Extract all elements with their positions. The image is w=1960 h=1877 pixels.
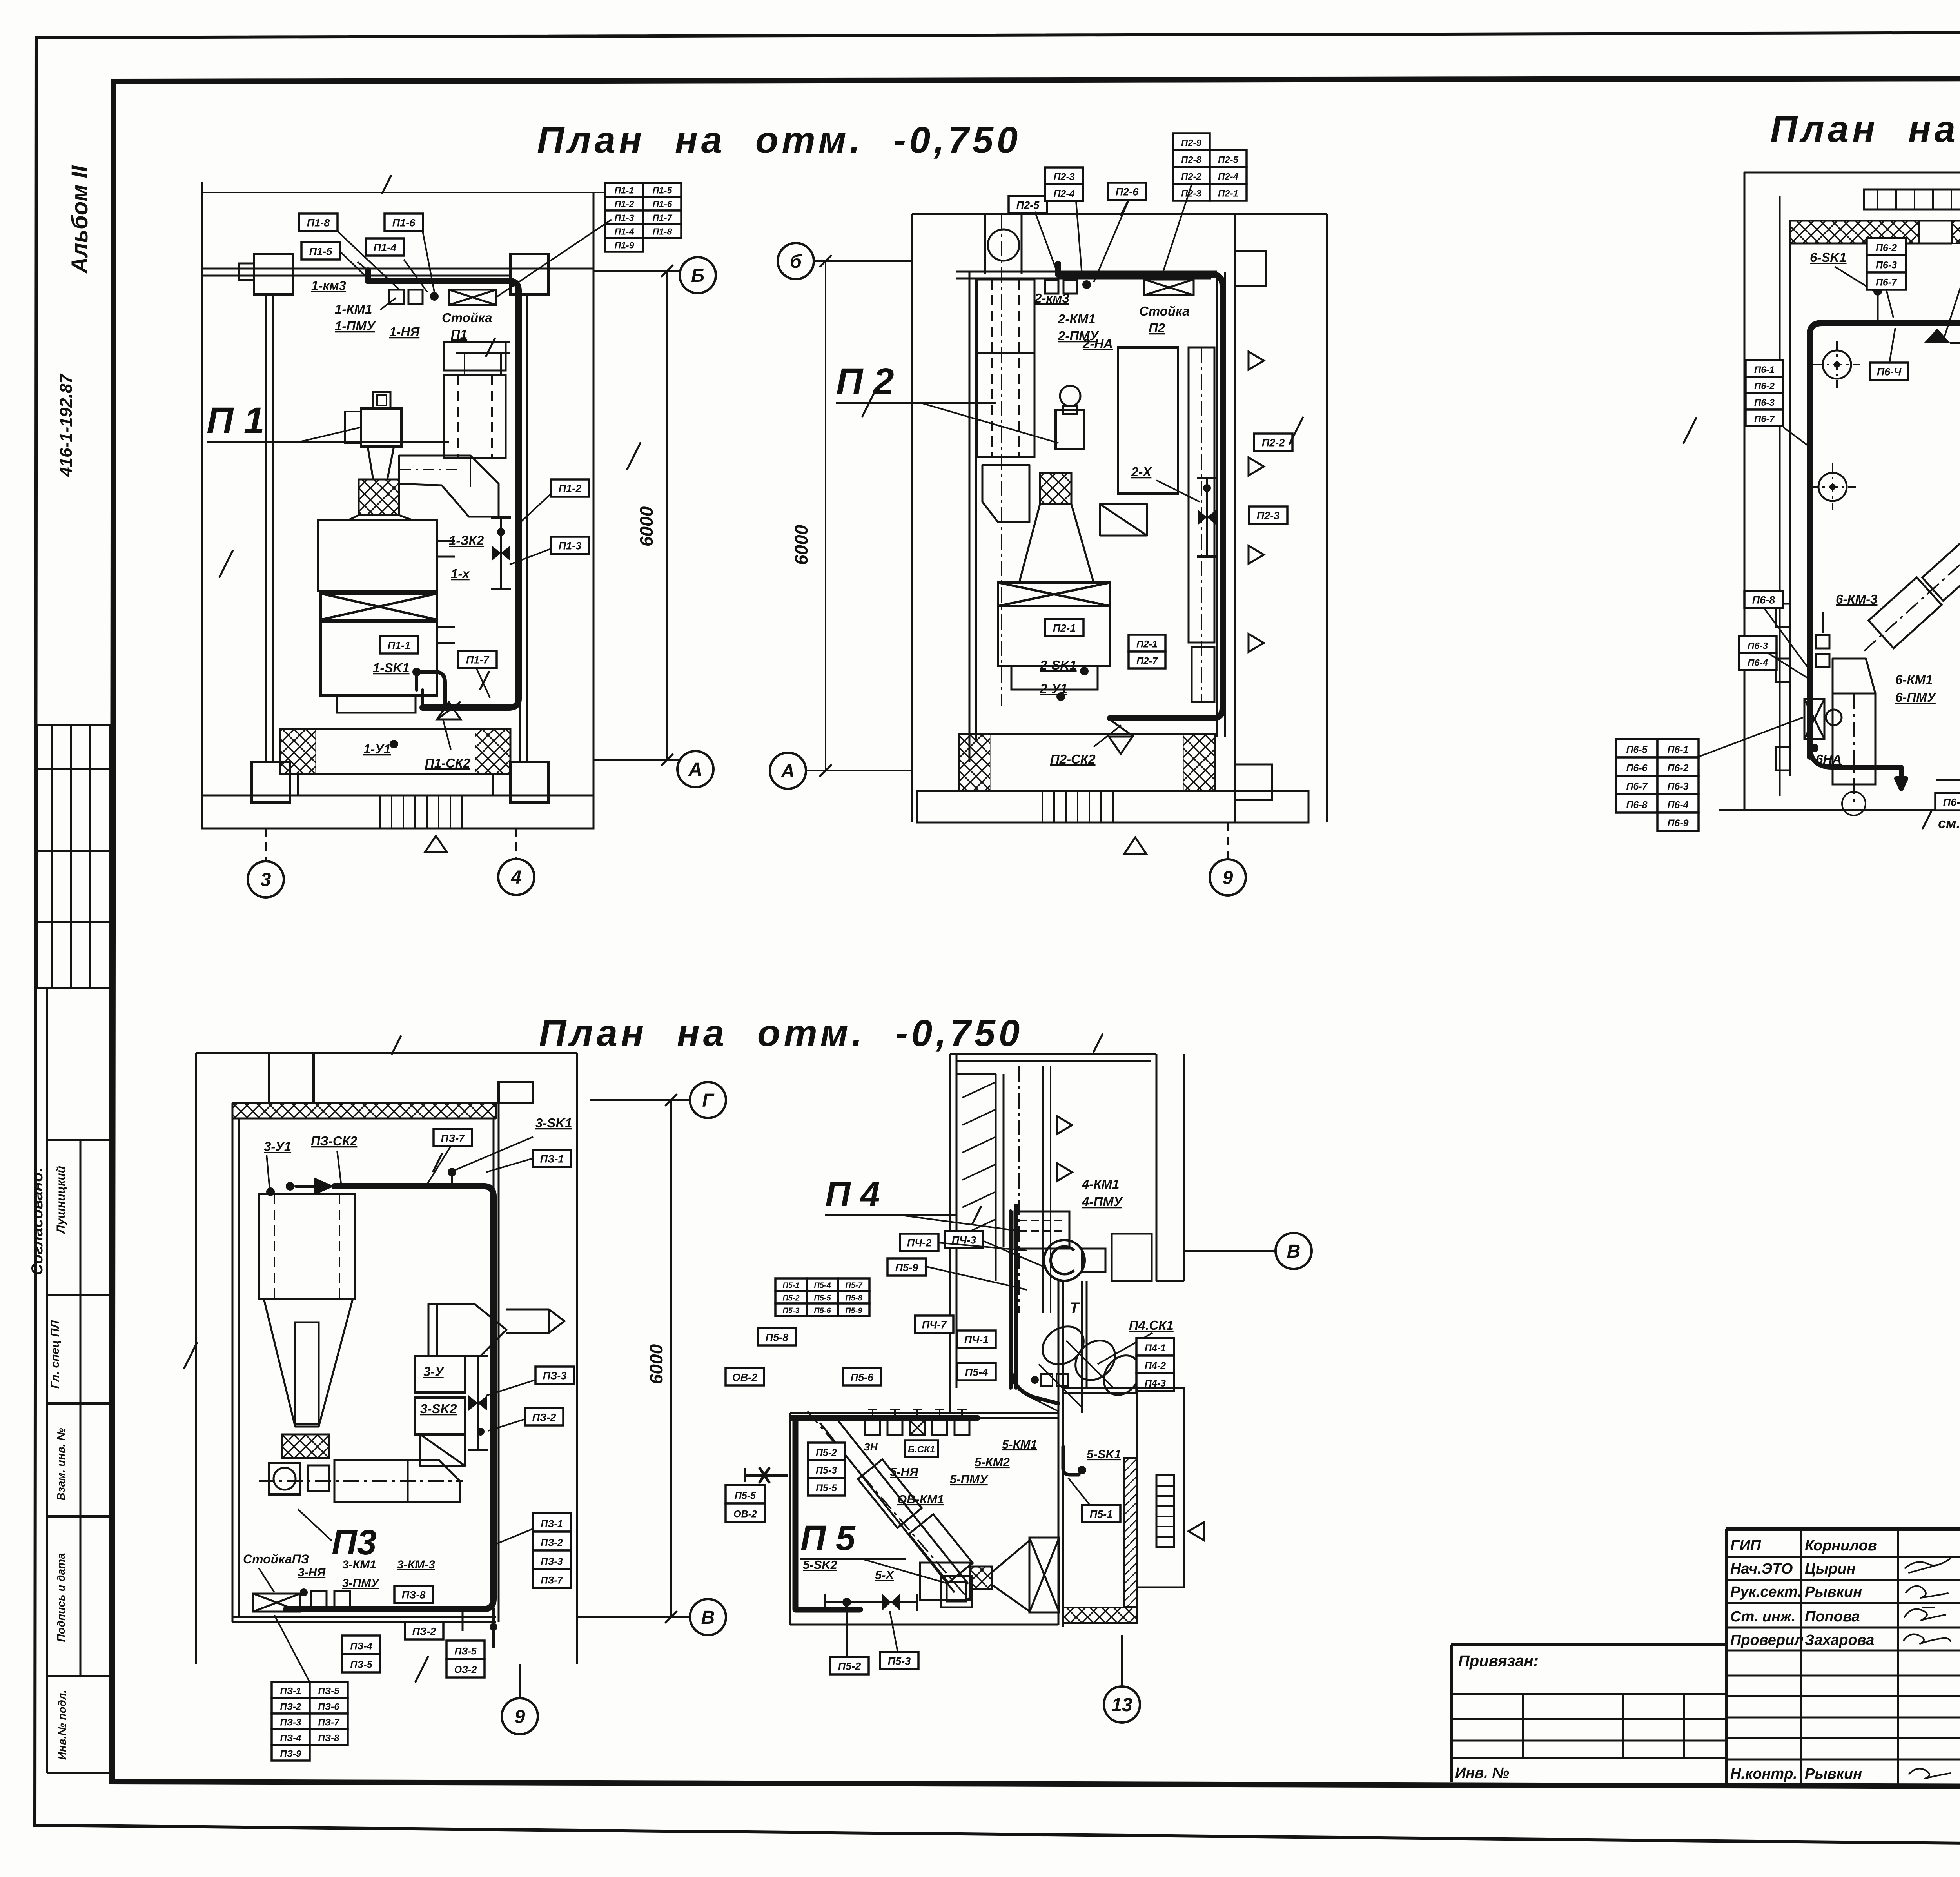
П1 leader П1-7 [476, 668, 490, 698]
П3 duct piece [308, 1465, 329, 1491]
П5 room walls [790, 1281, 1087, 1627]
П2 top dimension line [912, 197, 1327, 215]
svg-text:Рывкин: Рывкин [1805, 1584, 1862, 1600]
personnel table grid [1726, 1529, 1960, 1784]
personnel row Цырин [1730, 1561, 1960, 1577]
svg-text:П2-3: П2-3 [1181, 189, 1202, 199]
П4 index table [1136, 1338, 1174, 1391]
axis б leader [814, 260, 912, 262]
П6 damper symbol [1924, 279, 1960, 343]
axis 3 leader [265, 828, 267, 861]
П3 box 3-У [415, 1356, 465, 1392]
svg-text:П6-9: П6-9 [1667, 818, 1688, 829]
svg-text:6-SK1: 6-SK1 [1810, 250, 1847, 265]
label box ПЗ-3 [535, 1367, 574, 1384]
svg-text:4: 4 [511, 867, 522, 888]
axis circle 13 [1104, 1686, 1140, 1723]
П1 column B2 [510, 762, 548, 802]
svg-text:Взам. инв. №: Взам. инв. № [55, 1428, 67, 1501]
svg-text:3: 3 [261, 870, 271, 890]
svg-text:Привязан:: Привязан: [1458, 1652, 1539, 1670]
svg-text:П2-9: П2-9 [1181, 138, 1202, 149]
svg-text:1-НЯ: 1-НЯ [389, 325, 420, 339]
П5 fan assembly [920, 1538, 1059, 1612]
label box П5-1 [1082, 1505, 1120, 1522]
П3 right column box [499, 1082, 533, 1103]
title block outline [1726, 1529, 1960, 1790]
П6 sensor 6-SK1 [1835, 267, 1882, 323]
П6 top ticked strip [1864, 189, 1960, 209]
svg-text:П5-5: П5-5 [816, 1483, 837, 1494]
privyazan box [1451, 1645, 1726, 1782]
svg-text:3-У1: 3-У1 [264, 1139, 291, 1154]
П3 fan square [269, 1463, 300, 1494]
П6 leaders left [1764, 608, 1808, 678]
svg-text:ПЗ-7: ПЗ-7 [318, 1717, 340, 1728]
svg-text:Т: Т [1069, 1300, 1080, 1317]
svg-text:План на отм. -0,750: План на отм. -0,750 [537, 119, 1021, 161]
svg-text:2-SK1: 2-SK1 [1040, 658, 1077, 672]
margin upper grid [37, 725, 111, 988]
svg-text:Цырин: Цырин [1805, 1561, 1856, 1577]
label box П5-4 [957, 1363, 996, 1380]
svg-text:П2-СК2: П2-СК2 [1050, 752, 1096, 766]
svg-text:1-КМ1: 1-КМ1 [335, 302, 372, 316]
П3 leader table right [495, 1529, 533, 1545]
svg-text:П5-1: П5-1 [782, 1281, 799, 1290]
П3 pair bottom [342, 1636, 380, 1672]
П6 leader П6-Ч [1889, 328, 1895, 363]
П5 left valve [745, 1468, 788, 1482]
П3 valve assembly [468, 1356, 488, 1450]
svg-text:П5-5: П5-5 [814, 1294, 831, 1302]
signature Рывкин [1906, 1586, 1948, 1598]
П2 sensor dot 2-НА [1082, 280, 1091, 289]
svg-text:Инв. №: Инв. № [1455, 1765, 1509, 1781]
svg-text:П5-5: П5-5 [735, 1490, 756, 1501]
svg-text:П5-2: П5-2 [782, 1294, 799, 1302]
П2 foundation [959, 734, 1215, 791]
svg-text:П1-4: П1-4 [374, 242, 396, 254]
svg-text:П5-9: П5-9 [845, 1306, 862, 1315]
svg-text:4-ПМУ: 4-ПМУ [1082, 1194, 1123, 1209]
svg-text:3-SK2: 3-SK2 [420, 1401, 457, 1416]
svg-text:П1-8: П1-8 [307, 217, 330, 229]
svg-text:П5-8: П5-8 [766, 1332, 788, 1343]
signature Попова [1904, 1607, 1945, 1620]
svg-text:П4-1: П4-1 [1145, 1343, 1166, 1354]
svg-text:ПЗ-3: ПЗ-3 [280, 1717, 301, 1728]
svg-text:ПЗ-2: ПЗ-2 [412, 1626, 436, 1637]
П3 hopper hatch [282, 1434, 329, 1458]
svg-text:5-SK1: 5-SK1 [1087, 1447, 1121, 1461]
П6 dot 6НА [1810, 744, 1818, 752]
П1 left boundary wall line [201, 182, 203, 828]
svg-text:3-SK1: 3-SK1 [535, 1116, 572, 1130]
П3 elbow right [408, 1460, 460, 1502]
П3 dim vertical 6000 [577, 1095, 690, 1623]
П2 break mark right [1290, 418, 1303, 444]
П3 left wall [232, 1103, 239, 1622]
svg-text:П2-7: П2-7 [1136, 656, 1158, 667]
П1 column line left [266, 294, 273, 762]
П1 column A [239, 254, 293, 294]
svg-text:П1-4: П1-4 [615, 227, 634, 237]
svg-text:П2-1: П2-1 [1053, 623, 1076, 634]
П1 sensor dot 1-НЯ [430, 292, 439, 301]
svg-text:А: А [781, 761, 795, 782]
П3 top column box [269, 1053, 314, 1103]
svg-text:Проверил: Проверил [1730, 1632, 1804, 1648]
label box П1-5 [301, 242, 340, 260]
П2 fan unit [1056, 386, 1084, 449]
signature Цырин [1905, 1559, 1950, 1573]
signature Захарова [1904, 1634, 1951, 1644]
П3 horizontal duct [259, 1460, 463, 1502]
svg-text:6НА: 6НА [1816, 752, 1842, 766]
П2 ahu box [998, 606, 1110, 666]
svg-text:СтойкаПЗ: СтойкаПЗ [243, 1552, 309, 1566]
axis circle В [690, 1599, 726, 1635]
svg-text:б: б [790, 251, 802, 272]
svg-text:ПЗ-7: ПЗ-7 [441, 1133, 466, 1144]
П5 diag end box [941, 1576, 972, 1607]
axis circle Б [680, 257, 716, 293]
П2 tall dashed duct [977, 280, 1034, 457]
axis circle 9 [1210, 859, 1246, 895]
svg-text:ПЗ-1: ПЗ-1 [280, 1686, 301, 1696]
label box П2-3 [1249, 506, 1287, 524]
П2 right boundary line [1326, 214, 1328, 822]
svg-text:5-НЯ: 5-НЯ [890, 1465, 919, 1479]
svg-text:ПЗ-7: ПЗ-7 [541, 1575, 563, 1586]
П3 upper duct out [506, 1309, 564, 1333]
svg-text:П2-1: П2-1 [1218, 189, 1238, 199]
svg-text:П5-2: П5-2 [816, 1447, 837, 1458]
label box ПЗ-2 [525, 1408, 563, 1425]
svg-text:П6-5: П6-5 [1943, 797, 1960, 808]
svg-text:П6-2: П6-2 [1667, 763, 1688, 774]
svg-text:Корнилов: Корнилов [1805, 1538, 1877, 1554]
svg-text:ОЗ-2: ОЗ-2 [454, 1665, 477, 1676]
П6 table top [1867, 238, 1906, 290]
П1 column line right [520, 294, 527, 762]
svg-text:ПЧ-1: ПЧ-1 [964, 1334, 989, 1346]
П5 index table [775, 1278, 869, 1316]
П3 break left [184, 1343, 197, 1368]
svg-text:П5-2: П5-2 [838, 1661, 861, 1672]
П5 sensor 5-SK1 [1063, 1447, 1086, 1475]
П2 room left wall [969, 272, 976, 762]
label box П5-9 [887, 1258, 926, 1276]
П3 left boundary line [195, 1053, 197, 1664]
П2 room top wall [956, 272, 1217, 278]
П4 duct elbow down [1011, 1364, 1058, 1403]
П3 duct tail [463, 1609, 497, 1646]
svg-text:П1-1: П1-1 [615, 185, 634, 196]
П1 leader 1-км1 [380, 298, 396, 310]
svg-text:П1-3: П1-3 [615, 213, 634, 223]
svg-text:П1: П1 [451, 327, 467, 341]
svg-text:ПЗ-2: ПЗ-2 [280, 1701, 301, 1712]
П1 column B [510, 254, 548, 294]
П1 break mark near dim [627, 443, 641, 469]
label box П5-2 [830, 1657, 869, 1674]
svg-text:Стойка: Стойка [1139, 304, 1190, 318]
П2 left boundary line [911, 214, 913, 822]
label box П1-4 [366, 238, 404, 256]
svg-text:5-КМ2: 5-КМ2 [975, 1455, 1010, 1469]
label box П5-6 [843, 1368, 881, 1385]
label box ПЗ-7 [434, 1129, 472, 1146]
svg-text:В: В [1287, 1241, 1301, 1262]
svg-text:П5-7: П5-7 [845, 1281, 862, 1290]
П1 stoyka П1 duct stub [456, 338, 510, 375]
П3 right wall [494, 1103, 499, 1622]
П2 filter hatch [1040, 473, 1071, 504]
svg-text:План на отм. -0,750: План на отм. -0,750 [539, 1012, 1023, 1054]
svg-text:П1-9: П1-9 [615, 240, 634, 251]
axis circle 4 [498, 859, 534, 895]
svg-text:П6-3: П6-3 [1748, 641, 1768, 652]
svg-text:2-НА: 2-НА [1082, 336, 1113, 351]
П2 grille triangles [1249, 352, 1264, 652]
svg-text:3-У: 3-У [423, 1364, 445, 1379]
svg-text:3-НЯ: 3-НЯ [298, 1566, 326, 1579]
axis А2 leader [806, 770, 912, 771]
П4 shaft inner lines [956, 1074, 1004, 1281]
svg-text:П1-5: П1-5 [309, 246, 332, 258]
П3 upper elbow [428, 1304, 506, 1356]
svg-text:Стойка: Стойка [442, 310, 492, 325]
П2 leader lines top [1035, 184, 1192, 282]
П1 damper 1-пму [408, 290, 423, 304]
П1 duct to sensor [417, 672, 445, 708]
label box П6-5 [1935, 793, 1960, 810]
svg-text:3-ПМУ: 3-ПМУ [342, 1577, 380, 1590]
П4 heater box [1014, 1211, 1069, 1249]
svg-text:6-ПМУ: 6-ПМУ [1895, 690, 1937, 704]
svg-text:ПЧ-7: ПЧ-7 [922, 1319, 947, 1331]
П2 label pair [1045, 167, 1083, 201]
П3 dampers bottom [259, 1568, 350, 1609]
П1 Стойка box [449, 290, 496, 305]
П1 top wall [202, 269, 593, 276]
П1 elbow duct [399, 456, 499, 517]
П5 bottom valve assembly [825, 1594, 917, 1611]
П2 check valve [1108, 718, 1134, 754]
П3 label box ПЗ-2 bottom [405, 1622, 443, 1639]
П6 room outline [1719, 172, 1960, 810]
П1 duct bottom segment [417, 673, 423, 708]
svg-text:П1-7: П1-7 [466, 654, 490, 666]
svg-text:ПЗ-5: ПЗ-5 [350, 1659, 372, 1670]
П6 left wall inner [1780, 196, 1790, 796]
svg-text:П2-2: П2-2 [1181, 172, 1202, 182]
label box П6-8 [1744, 591, 1783, 608]
П6 leader table top [1886, 290, 1893, 318]
П6 break mark bottom [1923, 811, 1931, 828]
П3 pair ОЗ [446, 1641, 485, 1677]
personnel row Захарова [1730, 1632, 1960, 1648]
signature Рывкин 2 [1909, 1769, 1951, 1779]
svg-text:П6-2: П6-2 [1754, 381, 1775, 392]
svg-text:Г: Г [702, 1090, 715, 1111]
П3 supply duct [286, 1186, 494, 1609]
personnel row Попова [1730, 1608, 1960, 1625]
П1 damper 1-км1 [389, 290, 404, 304]
П1 index table [605, 183, 681, 252]
П1 slab triangle [425, 836, 447, 852]
svg-text:П1-1: П1-1 [388, 640, 410, 652]
svg-text:П 1: П 1 [207, 400, 265, 441]
svg-text:ПЗ-5: ПЗ-5 [454, 1646, 477, 1657]
personnel row Рывкин [1730, 1766, 1960, 1782]
П4 dashdot riser [1019, 1066, 1051, 1313]
П2 right outer boxes [1235, 251, 1272, 800]
axis 13 leader П5 [1121, 1635, 1123, 1686]
П2 big label underline [836, 403, 1058, 443]
П6 elbow bottom [1833, 659, 1875, 693]
П3 hopper leader [298, 1509, 332, 1541]
П3 Стойка box [253, 1594, 300, 1612]
svg-text:П5-6: П5-6 [851, 1372, 874, 1383]
П6 damper small [1816, 612, 1829, 667]
svg-text:П6-6: П6-6 [1626, 763, 1648, 774]
П1 bottom slab [202, 795, 593, 828]
svg-text:ПЗ-8: ПЗ-8 [318, 1733, 339, 1743]
svg-text:П6-8: П6-8 [1752, 594, 1775, 606]
П6 leader index table [1699, 717, 1803, 757]
svg-text:П1-СК2: П1-СК2 [425, 756, 470, 770]
П6 diagonal duct [1851, 497, 1960, 664]
label box П1-8 [299, 214, 338, 231]
svg-text:П2-5: П2-5 [1016, 200, 1040, 211]
svg-text:П6-7: П6-7 [1754, 414, 1775, 425]
П1 sensor dot 1-SK1 [412, 668, 421, 676]
П1 break mark left edge [220, 551, 233, 577]
svg-text:ГИП: ГИП [1730, 1538, 1761, 1554]
П1 leader СК2 [443, 719, 451, 750]
label box ПЧ-7 [915, 1316, 953, 1333]
svg-text:П1-7: П1-7 [653, 213, 673, 223]
svg-text:П6-4: П6-4 [1748, 658, 1768, 668]
axis circle А [770, 753, 806, 789]
label box ПЧ-3 [945, 1231, 983, 1248]
svg-text:П5-3: П5-3 [782, 1306, 799, 1315]
П2 Стойка box [1144, 280, 1194, 295]
П3 inlet detail [266, 1151, 341, 1196]
П1 leader П1-3 [510, 549, 551, 565]
П5 diagonal duct [808, 1411, 973, 1603]
П3 duct inlet valve [286, 1177, 334, 1195]
П5 big label underline [800, 1559, 949, 1584]
svg-text:ПЗ-9: ПЗ-9 [280, 1748, 301, 1759]
П4 shaft walls [950, 1034, 1156, 1413]
П6 wall fan [1804, 699, 1842, 739]
label box П2-5 [1009, 196, 1047, 213]
svg-text:6000: 6000 [646, 1344, 666, 1384]
П3 table right [533, 1513, 571, 1588]
П2 tall cabinet [1118, 347, 1214, 702]
label box ПЧ-1 [957, 1331, 996, 1348]
svg-text:П6-2: П6-2 [1876, 242, 1897, 253]
svg-text:9: 9 [515, 1706, 525, 1727]
svg-text:П6-7: П6-7 [1626, 781, 1648, 792]
П3 index table [272, 1682, 348, 1761]
personnel row Рывкин [1730, 1584, 1960, 1600]
svg-text:П2-3: П2-3 [1053, 172, 1074, 183]
П1 leader П1-2 [521, 494, 551, 521]
П1 right boundary wall line [593, 192, 595, 828]
П2 right wall strip [1217, 214, 1235, 822]
П2 sensor dot 2-У1 [1056, 692, 1065, 701]
margin cells grid [47, 725, 111, 1773]
svg-text:5-Х: 5-Х [875, 1568, 895, 1582]
П2 sensor dot 2-SK1 [1080, 667, 1089, 675]
svg-text:Инв.№ подл.: Инв.№ подл. [56, 1690, 68, 1760]
label box П2-1 [1045, 619, 1083, 636]
П1 filter hatch [359, 479, 399, 515]
svg-text:ПЗ-6: ПЗ-6 [318, 1701, 339, 1712]
П5 duct thin continuation [977, 1417, 1058, 1419]
svg-text:Попова: Попова [1805, 1608, 1860, 1625]
П1 leader lines top [337, 220, 612, 297]
axis 9 leader П3 [519, 1664, 521, 1698]
svg-text:ПЗ-3: ПЗ-3 [541, 1556, 563, 1567]
П4 right box [1112, 1234, 1152, 1281]
svg-text:1-км3: 1-км3 [311, 278, 346, 293]
personnel row Корнилов [1730, 1538, 1960, 1554]
label box П6-Ч [1870, 363, 1908, 380]
svg-text:ПЗ-2: ПЗ-2 [532, 1412, 556, 1423]
label box П2-6 [1108, 183, 1146, 200]
П3 bottom break [416, 1657, 428, 1682]
svg-text:Согласовано:: Согласовано: [29, 1167, 46, 1275]
П3 leader ПЗ-7 [427, 1146, 451, 1184]
svg-text:ПЗ-8: ПЗ-8 [402, 1589, 426, 1601]
П4 big label underline [825, 1207, 1019, 1231]
label box П5-3 [880, 1652, 918, 1669]
svg-text:ПЗ-СК2: ПЗ-СК2 [311, 1134, 358, 1148]
П1 side stub lines [437, 541, 455, 643]
П6 table left [1746, 360, 1783, 426]
svg-text:П5-4: П5-4 [965, 1367, 988, 1378]
svg-text:П2-4: П2-4 [1218, 172, 1238, 182]
П1 air handling unit box3 [321, 622, 437, 695]
П2 leader СК2 [1094, 725, 1121, 747]
svg-text:2-км3: 2-км3 [1034, 291, 1069, 305]
П2 leader 2-Х [1156, 480, 1200, 502]
П1 air handling unit box2 [321, 594, 437, 620]
П1 big label underline [207, 427, 449, 442]
П4 leader СК1 [1098, 1333, 1152, 1364]
svg-text:П2-6: П2-6 [1116, 186, 1139, 198]
label box П6-9 [1657, 813, 1699, 831]
П2 funnel [1019, 504, 1094, 583]
svg-text:ПЗ-4: ПЗ-4 [350, 1641, 372, 1652]
П4 dampers bottom [1027, 1374, 1068, 1411]
П5 supply duct [793, 1418, 977, 1610]
П2 dim vertical 6000 [820, 256, 831, 776]
axis В leader П4 [1184, 1250, 1276, 1252]
П3 top wall hatch [232, 1103, 496, 1118]
svg-text:416-1-192.87: 416-1-192.87 [56, 373, 76, 477]
П6 supply duct ring [1810, 323, 1960, 757]
svg-text:6000: 6000 [636, 506, 657, 546]
label box П1-6 [385, 214, 423, 231]
svg-text:П5-8: П5-8 [845, 1294, 862, 1302]
